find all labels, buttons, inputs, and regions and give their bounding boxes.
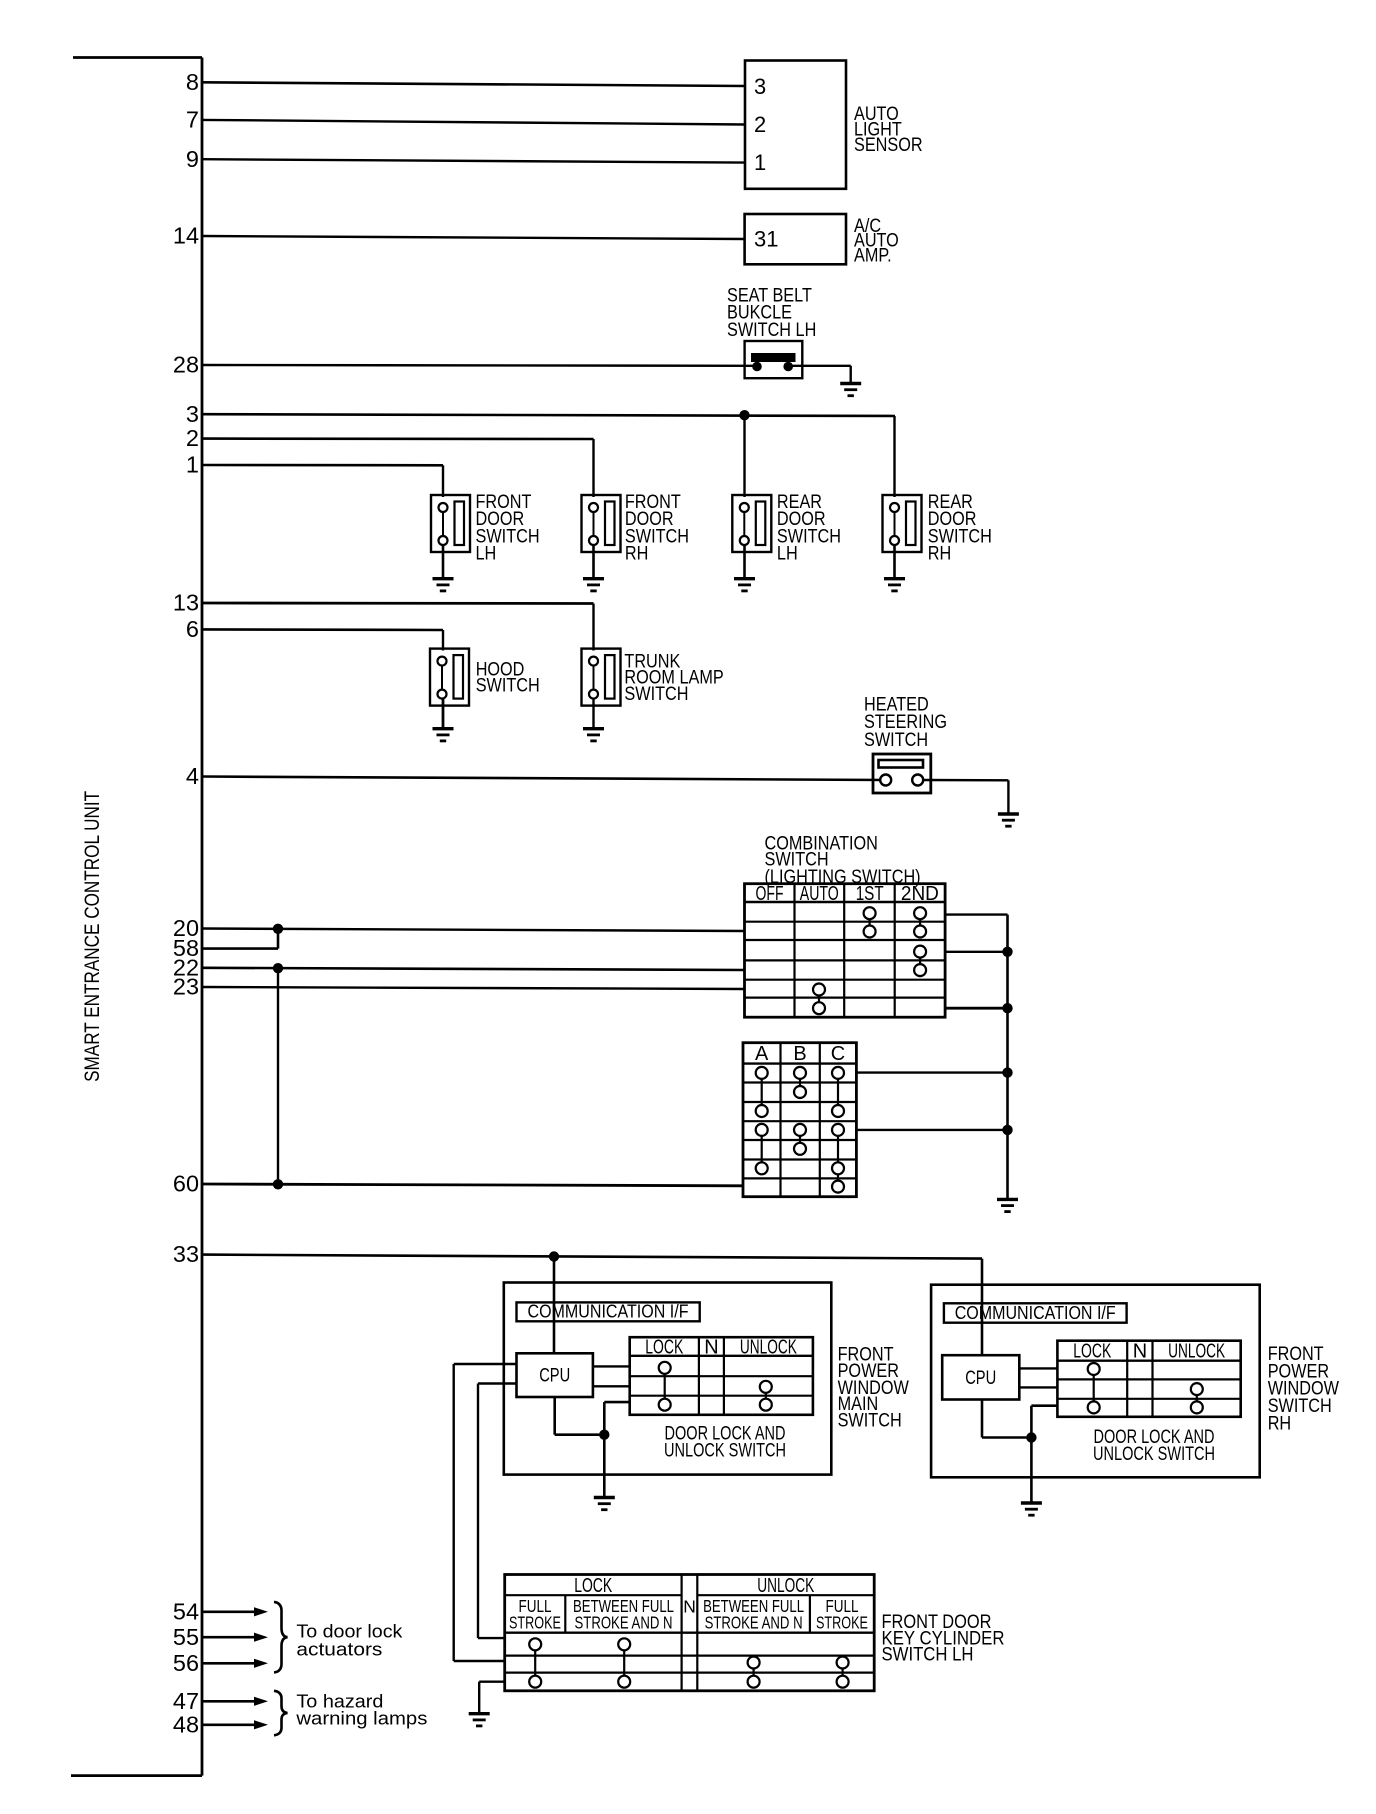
svg-text:6: 6 (186, 616, 199, 642)
pin 20 label (173, 915, 199, 941)
front door key cylinder switch label (882, 1612, 1005, 1666)
pin 47 label (173, 1688, 199, 1714)
wire ABC row1 to ground bus (856, 1071, 1007, 1073)
svg-text:RH: RH (1268, 1413, 1292, 1434)
to door lock actuators label (296, 1621, 403, 1660)
wire pin 13 to trunk room lamp switch (202, 603, 594, 651)
a/c auto amp box (745, 214, 846, 264)
svg-text:SMART ENTRANCE CONTROL UNIT: SMART ENTRANCE CONTROL UNIT (80, 791, 104, 1082)
door lock and unlock switch label (RH) (1093, 1427, 1215, 1465)
svg-text:13: 13 (173, 590, 199, 616)
heated steering switch label (864, 695, 947, 752)
svg-text:54: 54 (173, 1598, 199, 1624)
svg-text:COMMUNICATION I/F: COMMUNICATION I/F (528, 1302, 689, 1322)
pin 4 label (186, 763, 199, 789)
svg-text:CPU: CPU (539, 1365, 570, 1386)
wire pin 2 to front door switch RH (202, 439, 594, 497)
front power window main switch box (504, 1283, 832, 1475)
wire rear door switch RH to ground (893, 545, 896, 579)
svg-text:23: 23 (173, 974, 199, 1000)
svg-text:LOCK: LOCK (1073, 1341, 1111, 1363)
seat belt buckle switch SW1 (745, 341, 803, 378)
svg-text:OFF: OFF (756, 882, 784, 905)
svg-text:UNLOCK SWITCH: UNLOCK SWITCH (664, 1441, 786, 1462)
svg-text:COMMUNICATION I/F: COMMUNICATION I/F (955, 1303, 1116, 1323)
communication i/f block (main switch) (517, 1302, 700, 1322)
junction row3 / ground bus (1002, 947, 1012, 957)
wire pin 3 to rear door switches (202, 414, 895, 497)
svg-text:UNLOCK SWITCH: UNLOCK SWITCH (1093, 1444, 1215, 1465)
pin 7 label (186, 107, 199, 133)
svg-text:AUTO: AUTO (800, 882, 839, 905)
wire pin 33 to power window switches (202, 1255, 982, 1356)
pin 56 label (173, 1650, 199, 1676)
pin 58 label (173, 935, 199, 961)
auto light sensor label (854, 104, 923, 156)
a/c auto amp label (854, 216, 899, 266)
ground (front door switch RH) (583, 579, 604, 591)
svg-text:SENSOR: SENSOR (854, 135, 923, 156)
door lock and unlock switch table (RH) (1057, 1341, 1240, 1417)
wire pin 4 to heated steering switch (202, 777, 886, 781)
pin 8 label (186, 69, 199, 95)
svg-text:A: A (755, 1043, 769, 1065)
ground (trunk room lamp switch) (583, 729, 604, 741)
junction ABC row4 / ground bus (1002, 1125, 1012, 1135)
svg-text:47: 47 (173, 1688, 199, 1714)
svg-text:STROKE AND N: STROKE AND N (575, 1612, 673, 1632)
heated steering switch SW2 (873, 754, 931, 793)
svg-text:UNLOCK: UNLOCK (757, 1575, 814, 1597)
trunk room lamp switch (582, 649, 621, 706)
cpu U2 (RH) (942, 1355, 1019, 1399)
svg-text:SWITCH: SWITCH (624, 684, 688, 705)
combination (lighting) switch contact table (745, 882, 946, 1017)
ground (front door key cylinder switch) (469, 1714, 490, 1726)
wire cpu to lock/unlock table (RH, row1) (1019, 1367, 1057, 1369)
auto light sensor box (745, 61, 846, 189)
pin 14 label (173, 223, 199, 249)
wire rear door switch LH to ground (743, 545, 746, 579)
pin 54 label (173, 1598, 199, 1624)
ground (front power window switch RH) (1021, 1503, 1042, 1515)
wire cpu/table common to ground (main) (555, 1397, 630, 1498)
junction pin 33 / main switch branch (549, 1251, 559, 1261)
pin 55 label (173, 1624, 199, 1650)
wire combination switch row3 to ground bus (945, 951, 1007, 953)
pin 48 label (173, 1711, 199, 1737)
svg-text:UNLOCK: UNLOCK (1168, 1341, 1225, 1363)
combination switch ABC contact table (743, 1043, 856, 1197)
rear door switch LH (732, 495, 771, 552)
front power window switch RH label (1268, 1344, 1339, 1435)
wire junction 22 down to pin 60 wire (277, 968, 279, 1184)
svg-text:1: 1 (186, 452, 199, 478)
junction pin 60 / bus from pin 22 (273, 1179, 283, 1189)
svg-text:8: 8 (186, 69, 199, 95)
wire pin 7 to auto light sensor pin 2 (202, 120, 745, 125)
svg-text:N: N (1133, 1341, 1147, 1363)
svg-text:STROKE AND N: STROKE AND N (705, 1612, 803, 1632)
svg-text:RH: RH (928, 544, 952, 565)
svg-text:33: 33 (173, 1241, 199, 1267)
svg-text:N: N (683, 1597, 696, 1617)
ground (front door switch LH) (433, 579, 454, 591)
wire pin 60 to combination switch ABC table (202, 1184, 743, 1186)
wire seat belt switch to ground (788, 366, 851, 384)
trunk room lamp switch label (624, 651, 723, 704)
ground (rear door switch RH) (884, 579, 905, 591)
junction ABC row1 / ground bus (1002, 1067, 1012, 1077)
svg-text:4: 4 (186, 763, 199, 789)
pin 22 label (173, 954, 199, 980)
svg-text:B: B (793, 1043, 806, 1065)
wire trunk room lamp switch to ground (592, 699, 594, 729)
front door key cylinder switch table (505, 1575, 875, 1691)
svg-text:SWITCH LH: SWITCH LH (727, 320, 816, 341)
svg-text:CPU: CPU (965, 1368, 996, 1389)
junction pin 22 / bus to pin 60 (273, 963, 283, 973)
door lock and unlock switch table (main) (630, 1336, 813, 1414)
pin 13 label (173, 590, 199, 616)
pin 28 label (173, 352, 199, 378)
ground (combination switch bus) (997, 1199, 1018, 1211)
wire ABC row4 to ground bus (856, 1129, 1007, 1131)
junction ground net (main) (599, 1430, 609, 1440)
cpu U1 (main switch) (517, 1353, 593, 1397)
communication i/f block (RH) (944, 1303, 1127, 1323)
wire cpu to key cylinder (upper) (454, 1364, 517, 1661)
svg-text:STROKE: STROKE (509, 1612, 561, 1632)
svg-text:48: 48 (173, 1711, 199, 1737)
hood switch label (476, 659, 540, 696)
wire pin 1 to front door switch LH (202, 465, 443, 497)
junction ground net (RH) (1026, 1432, 1036, 1442)
wire cpu/table common to ground (RH) (982, 1400, 1057, 1504)
svg-text:LOCK: LOCK (574, 1575, 612, 1597)
wire cpu to key cylinder (lower) (478, 1384, 517, 1639)
svg-text:55: 55 (173, 1624, 199, 1650)
wire pin 6 to hood switch (202, 629, 443, 650)
wire key cylinder common to ground (479, 1682, 505, 1714)
pin 3 label (186, 401, 199, 427)
front door switch RH (582, 495, 621, 552)
wire combination switch row6 to ground bus (945, 1007, 1007, 1010)
svg-text:1: 1 (754, 150, 766, 175)
ground (hood switch) (433, 729, 454, 741)
wire front door switch RH to ground (592, 545, 595, 579)
ground (rear door switch LH) (734, 579, 755, 591)
svg-text:AMP.: AMP. (854, 245, 892, 266)
wire hood switch to ground (442, 699, 445, 729)
brace hazard warning lamps group (274, 1691, 288, 1736)
brace door lock actuators group (274, 1602, 288, 1673)
svg-text:C: C (831, 1043, 845, 1065)
wire pin 58 joining pin 20 (202, 929, 278, 949)
pin 60 label (173, 1171, 199, 1197)
wire pin 55 to door lock actuators (arrow) (202, 1633, 268, 1642)
svg-text:SWITCH: SWITCH (476, 675, 540, 696)
svg-text:LOCK: LOCK (645, 1336, 683, 1358)
wire combination switch row1 to ground bus (945, 915, 1007, 1200)
wire heated steering switch to ground (923, 780, 1008, 814)
svg-text:STROKE: STROKE (816, 1612, 868, 1632)
svg-text:2ND: 2ND (901, 882, 939, 905)
front door switch LH label (476, 492, 540, 565)
wire pin 54 to door lock actuators (arrow) (202, 1607, 268, 1616)
front door switch LH (431, 495, 470, 552)
wire cpu to lock/unlock table (main, row1) (593, 1365, 630, 1367)
wire pin 28 to seat belt buckle switch (202, 364, 757, 367)
svg-text:SWITCH LH: SWITCH LH (882, 1644, 974, 1665)
svg-text:31: 31 (754, 227, 779, 252)
front door switch RH label (625, 492, 689, 565)
door lock and unlock switch label (main) (664, 1424, 786, 1462)
svg-text:RH: RH (625, 544, 649, 565)
svg-text:14: 14 (173, 223, 199, 249)
svg-text:actuators: actuators (296, 1638, 382, 1659)
pin 23 label (173, 974, 199, 1000)
svg-text:28: 28 (173, 352, 199, 378)
svg-text:9: 9 (186, 146, 199, 172)
junction pin 20 / pin 58 (273, 924, 283, 934)
smart entrance control unit (connector edge) (71, 58, 202, 1776)
combination switch label (765, 834, 921, 889)
ground (front power window main switch) (594, 1498, 615, 1510)
svg-text:UNLOCK: UNLOCK (740, 1336, 797, 1358)
pin 1 label (186, 452, 199, 478)
ground (heated steering switch) (998, 814, 1019, 826)
wire pin 14 to a/c auto amp pin 31 (202, 236, 745, 239)
wire pin 8 to auto light sensor pin 3 (202, 82, 745, 86)
rear door switch LH label (777, 492, 841, 565)
front power window switch RH box (931, 1285, 1260, 1478)
svg-text:7: 7 (186, 107, 199, 133)
junction row6 / ground bus (1002, 1003, 1012, 1013)
svg-text:SWITCH: SWITCH (838, 1411, 902, 1432)
wire pin 23 to combination switch (202, 987, 745, 989)
pin 6 label (186, 616, 199, 642)
svg-text:3: 3 (186, 401, 199, 427)
svg-text:warning lamps: warning lamps (295, 1708, 427, 1729)
rear door switch RH label (928, 492, 992, 565)
wire pin 20 to combination switch (202, 929, 745, 932)
svg-text:LH: LH (476, 544, 497, 565)
svg-text:N: N (704, 1336, 718, 1358)
wire front door switch LH to ground (442, 545, 445, 579)
wire cpu to lock/unlock table (main, row2) (593, 1385, 630, 1387)
wire pin 22 to combination switch (202, 968, 745, 970)
svg-text:2: 2 (754, 112, 766, 137)
hood switch (430, 649, 469, 706)
svg-text:3: 3 (754, 74, 766, 99)
wire pin 56 to door lock actuators (arrow) (202, 1659, 268, 1668)
svg-text:SWITCH: SWITCH (864, 730, 928, 751)
seat belt buckle switch label (727, 285, 816, 341)
pin 33 label (173, 1241, 199, 1267)
pin 2 label (186, 425, 199, 451)
svg-text:2: 2 (186, 425, 199, 451)
svg-text:56: 56 (173, 1650, 199, 1676)
svg-text:1ST: 1ST (856, 882, 884, 905)
wire pin 47 to hazard warning lamps (arrow) (202, 1697, 268, 1706)
ground (seat belt buckle switch) (840, 384, 861, 396)
svg-text:60: 60 (173, 1171, 199, 1197)
junction pin 3 / rear door switch LH (739, 410, 749, 420)
front power window main switch label (838, 1344, 909, 1431)
pin 9 label (186, 146, 199, 172)
to hazard warning lamps label (295, 1691, 427, 1729)
svg-text:LH: LH (777, 544, 798, 565)
wire cpu to lock/unlock table (RH, row2) (1019, 1386, 1057, 1388)
rear door switch RH (883, 495, 922, 552)
wire pin 48 to hazard warning lamps (arrow) (202, 1720, 268, 1729)
wire pin 9 to auto light sensor pin 1 (202, 159, 745, 162)
